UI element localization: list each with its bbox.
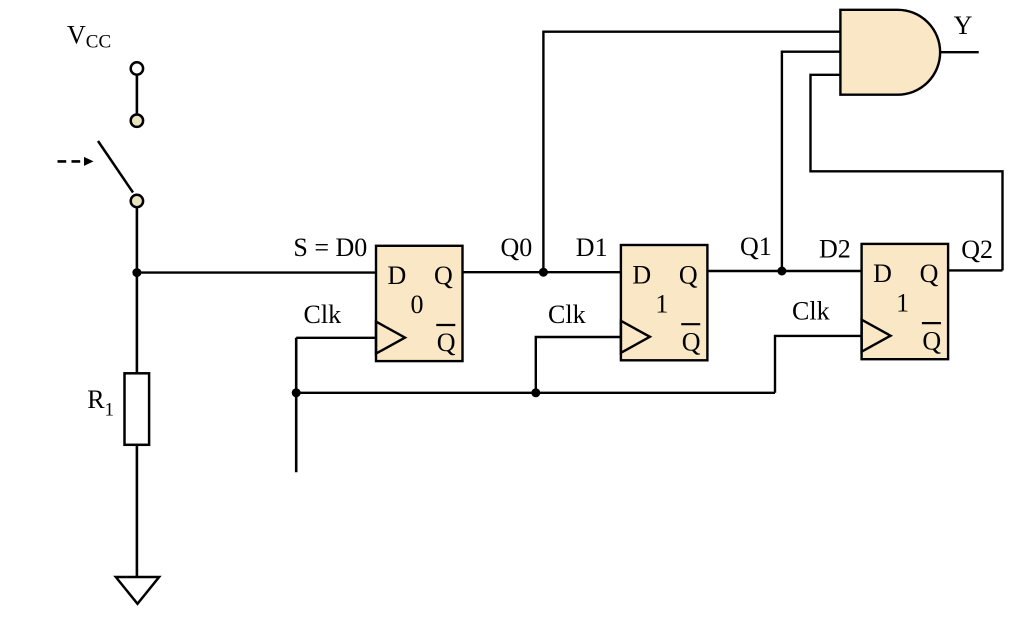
svg-text:Q: Q <box>920 259 939 288</box>
wire: clock riser to U2 clock pin <box>536 337 621 393</box>
svg-text:Q0: Q0 <box>501 233 533 262</box>
wire: switch contact down to resistor (through node S) <box>136 208 139 374</box>
svg-text:Y: Y <box>954 11 973 40</box>
wire: clock riser to U3 clock pin <box>775 336 862 393</box>
svg-text:Q: Q <box>679 260 698 289</box>
svg-text:D: D <box>388 261 407 290</box>
wire: Q0 net (U1 Q to U2 D) <box>463 271 621 273</box>
clock input triangle (U1) <box>376 322 405 354</box>
svg-text:Q1: Q1 <box>740 232 772 261</box>
junction: clock bus at U2 riser <box>531 388 540 397</box>
svg-text:Q: Q <box>434 261 453 290</box>
svg-text:R1: R1 <box>87 385 114 421</box>
terminal: switch bottom contact <box>131 195 143 207</box>
wire: Q2 feedback to AND gate input C <box>811 75 1003 271</box>
AND gate U4 <box>840 10 940 95</box>
wire: node S to U1 D input (S = D0) <box>137 271 376 273</box>
junction: clock bus at U1 riser <box>292 388 301 397</box>
wire: clock to U1 clock pin <box>296 337 376 339</box>
ground <box>116 577 159 604</box>
pin label Q-bar (U1) <box>436 325 456 357</box>
terminal: VCC open contact circle <box>131 62 143 74</box>
D flip-flop U2 (stage 1) <box>621 245 708 360</box>
svg-text:Clk: Clk <box>792 297 830 326</box>
svg-text:Q: Q <box>437 328 456 357</box>
wire: Q1 branch up to AND gate input B <box>782 52 841 271</box>
svg-text:Clk: Clk <box>304 300 342 329</box>
wire: VCC stub to switch top contact <box>136 76 139 114</box>
pin label Q-bar (U3) <box>922 323 942 355</box>
svg-text:VCC: VCC <box>67 20 111 52</box>
D flip-flop U3 (stage 2) <box>862 244 949 359</box>
pin label Q-bar (U2) <box>681 324 701 356</box>
wire: external clock input stub <box>295 338 298 472</box>
svg-text:Q: Q <box>682 327 701 356</box>
terminal: switch top contact <box>131 115 143 127</box>
clock input triangle (U3) <box>862 320 891 352</box>
svg-text:Q: Q <box>922 326 941 355</box>
svg-text:D: D <box>632 260 651 289</box>
junction: node Q0 <box>539 268 548 277</box>
clock input triangle (U2) <box>621 321 650 353</box>
svg-text:1: 1 <box>896 288 909 317</box>
junction: node Q1 <box>777 267 786 276</box>
junction: node S <box>132 268 141 277</box>
resistor R1 <box>125 373 150 445</box>
svg-text:S = D0: S = D0 <box>293 233 367 262</box>
wire: AND gate output Y <box>940 51 979 53</box>
svg-text:Clk: Clk <box>548 300 586 329</box>
wire: resistor R1 to ground <box>136 445 139 577</box>
svg-text:D1: D1 <box>576 233 608 262</box>
switch arm <box>98 141 133 193</box>
svg-text:D2: D2 <box>819 235 851 264</box>
svg-text:D: D <box>873 259 892 288</box>
D flip-flop U1 (stage 0) <box>376 246 463 361</box>
svg-text:Q2: Q2 <box>961 235 993 264</box>
wire: Q1 net (U2 Q to U3 D) <box>707 270 861 272</box>
switch actuation arrow (dashed) <box>58 157 94 166</box>
wire: Q0 branch up to AND gate input A <box>543 32 840 273</box>
svg-text:0: 0 <box>411 290 424 319</box>
wire: clock bus <box>296 392 775 394</box>
svg-text:1: 1 <box>655 289 668 318</box>
wire: Q2 net (U3 Q output) <box>948 269 1002 271</box>
